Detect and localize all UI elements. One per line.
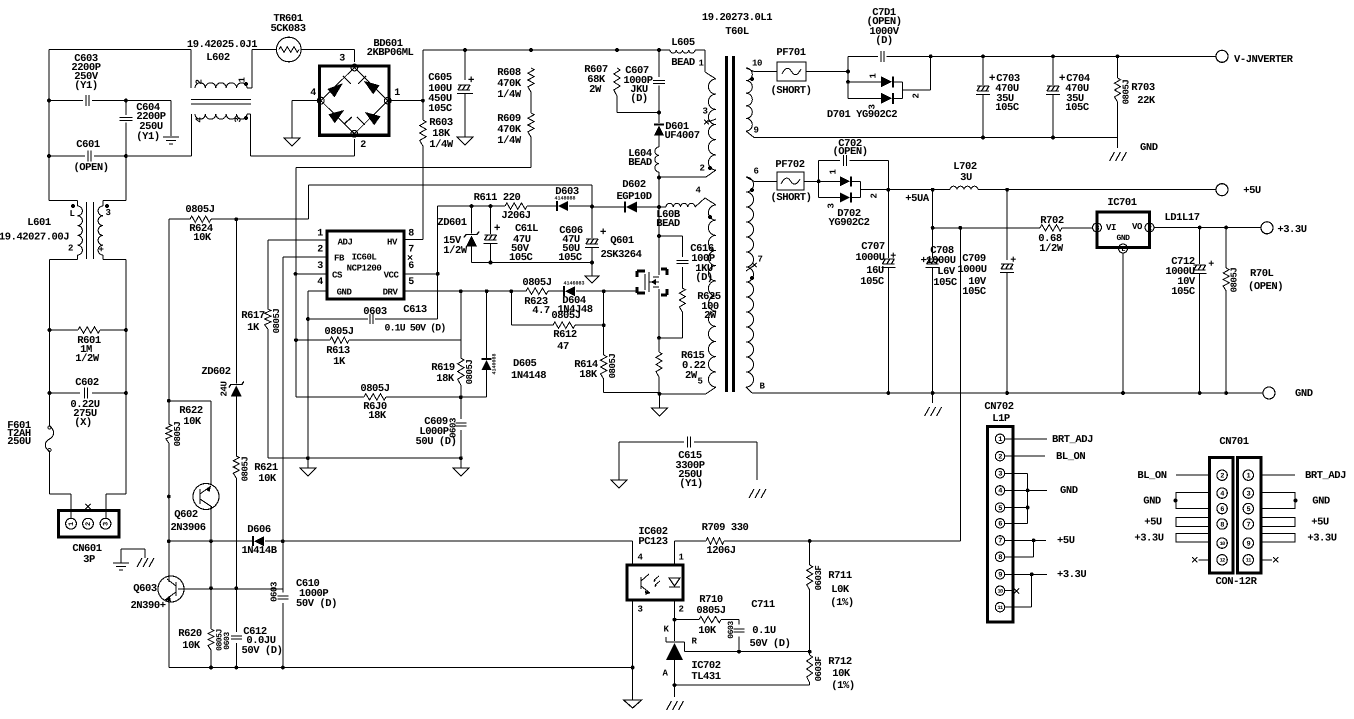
- svg-text:2: 2: [317, 245, 323, 256]
- svg-text:(SHORT): (SHORT): [771, 85, 812, 97]
- svg-text:1: 1: [394, 88, 400, 99]
- svg-text:2: 2: [679, 604, 684, 614]
- svg-text:105C: 105C: [962, 286, 987, 298]
- svg-text:10K: 10K: [832, 668, 851, 680]
- svg-text:D605: D605: [513, 358, 537, 370]
- svg-text:8: 8: [998, 554, 1002, 562]
- svg-text:FB: FB: [334, 253, 345, 263]
- svg-text:10: 10: [752, 58, 762, 68]
- svg-text:(Y1): (Y1): [679, 478, 702, 490]
- svg-text:3: 3: [1095, 225, 1099, 233]
- svg-text:4: 4: [310, 88, 316, 99]
- svg-text:+: +: [1010, 256, 1016, 267]
- svg-text:2: 2: [1148, 225, 1152, 233]
- svg-text:1: 1: [317, 229, 323, 240]
- svg-text:VI: VI: [1106, 223, 1116, 233]
- svg-text:(Y1): (Y1): [136, 131, 159, 143]
- svg-text:+: +: [494, 223, 501, 235]
- svg-text:0603: 0603: [727, 621, 736, 639]
- svg-text:R70L: R70L: [1250, 268, 1274, 280]
- svg-text:3: 3: [102, 522, 110, 526]
- svg-text:T60L: T60L: [725, 26, 749, 38]
- svg-text:BEAD: BEAD: [671, 57, 695, 69]
- svg-text:GND: GND: [1312, 495, 1330, 507]
- svg-text:0805J: 0805J: [240, 457, 250, 482]
- svg-text:Q603: Q603: [133, 583, 157, 595]
- svg-text:7: 7: [998, 538, 1002, 546]
- svg-text:ADJ: ADJ: [338, 237, 353, 247]
- svg-text:2KBP06ML: 2KBP06ML: [367, 47, 414, 59]
- svg-text:GND: GND: [1116, 234, 1130, 243]
- svg-text:R709 330: R709 330: [702, 522, 749, 534]
- svg-text:50V (D): 50V (D): [242, 645, 283, 657]
- svg-text:10: 10: [997, 589, 1003, 595]
- svg-text:8: 8: [408, 229, 414, 240]
- svg-text:6: 6: [754, 166, 759, 176]
- svg-text:1: 1: [1246, 473, 1250, 481]
- svg-text:4.7: 4.7: [532, 305, 550, 317]
- svg-text:L: L: [70, 209, 75, 219]
- svg-text:6: 6: [1220, 506, 1224, 514]
- svg-text:+: +: [890, 252, 896, 263]
- svg-text:L: L: [1121, 246, 1125, 254]
- svg-text:PF702: PF702: [775, 159, 804, 171]
- svg-text:L605: L605: [671, 37, 695, 49]
- svg-text:DRV: DRV: [383, 287, 399, 297]
- svg-text:C613: C613: [403, 304, 427, 316]
- svg-text:0805J: 0805J: [1229, 268, 1239, 293]
- svg-text:4146083: 4146083: [563, 280, 584, 286]
- svg-text:1N4148: 1N4148: [511, 370, 546, 382]
- svg-text:19.20273.0L1: 19.20273.0L1: [702, 12, 772, 24]
- svg-text:0603F: 0603F: [814, 657, 824, 682]
- svg-text:UF4007: UF4007: [664, 130, 699, 142]
- svg-text:8: 8: [1220, 521, 1224, 529]
- svg-text:0805J: 0805J: [696, 605, 725, 617]
- svg-text:+3.3U: +3.3U: [1057, 569, 1086, 581]
- svg-text:C602: C602: [75, 377, 99, 389]
- svg-text:BRT_ADJ: BRT_ADJ: [1052, 434, 1093, 446]
- svg-text:2W: 2W: [685, 370, 698, 382]
- svg-text:Q602: Q602: [174, 509, 198, 521]
- svg-text:2: 2: [911, 93, 921, 98]
- svg-text:0603F: 0603F: [814, 566, 824, 591]
- svg-text:3P: 3P: [83, 554, 95, 566]
- svg-text:12: 12: [1220, 558, 1226, 564]
- svg-text:L601: L601: [27, 217, 51, 229]
- svg-text:105C: 105C: [1065, 102, 1090, 114]
- svg-text:+5U: +5U: [1057, 535, 1075, 547]
- svg-text:R712: R712: [828, 656, 852, 668]
- svg-text:BEAD: BEAD: [628, 157, 652, 169]
- svg-text:50V (D): 50V (D): [296, 598, 337, 610]
- svg-text:D602: D602: [622, 179, 646, 191]
- svg-text:ZD601: ZD601: [437, 217, 466, 229]
- svg-text:+5U: +5U: [1311, 516, 1329, 528]
- svg-text:3: 3: [998, 471, 1002, 479]
- svg-text:(OPEN): (OPEN): [832, 146, 867, 158]
- svg-text:ZD602: ZD602: [201, 366, 230, 378]
- svg-text:3: 3: [106, 208, 111, 218]
- svg-text:BL_ON: BL_ON: [1137, 470, 1166, 482]
- svg-text:R612: R612: [553, 329, 577, 341]
- svg-text:L1P: L1P: [992, 413, 1010, 425]
- svg-text:5: 5: [698, 376, 703, 386]
- svg-text:+3.3U: +3.3U: [1134, 532, 1163, 544]
- svg-text:+3.3U: +3.3U: [1277, 224, 1306, 236]
- svg-text:18K: 18K: [368, 410, 387, 422]
- svg-text:CS: CS: [332, 270, 343, 280]
- svg-text:+: +: [99, 245, 104, 255]
- svg-text:24U: 24U: [219, 382, 229, 397]
- svg-text:0.1U: 0.1U: [752, 625, 776, 637]
- svg-text:2: 2: [360, 140, 366, 151]
- svg-text:105C: 105C: [558, 252, 583, 264]
- svg-text:CN702: CN702: [984, 401, 1013, 413]
- svg-text:5: 5: [998, 505, 1002, 513]
- svg-text:105C: 105C: [860, 276, 885, 288]
- svg-text:0805J: 0805J: [608, 354, 618, 379]
- svg-text:50U (D): 50U (D): [416, 436, 457, 448]
- svg-text:10K: 10K: [182, 640, 201, 652]
- svg-text:250U: 250U: [7, 436, 31, 448]
- svg-text:4148088: 4148088: [554, 195, 575, 201]
- svg-text:R711: R711: [828, 570, 852, 582]
- svg-text:1000U: 1000U: [855, 252, 884, 264]
- svg-text:(D): (D): [875, 35, 893, 47]
- svg-text:10: 10: [1220, 541, 1226, 547]
- svg-text:0805J: 0805J: [465, 360, 475, 385]
- svg-text:105C: 105C: [428, 103, 453, 115]
- svg-text:3: 3: [826, 203, 836, 208]
- svg-text:(X): (X): [74, 417, 92, 429]
- svg-text:1/4W: 1/4W: [429, 139, 454, 151]
- svg-text:19.42027.00J: 19.42027.00J: [0, 231, 69, 243]
- svg-text:3: 3: [1246, 490, 1250, 498]
- svg-text:2: 2: [700, 163, 705, 173]
- svg-text:7: 7: [758, 254, 763, 264]
- svg-text:5: 5: [408, 277, 414, 288]
- svg-text:10K: 10K: [258, 473, 277, 485]
- svg-text:3: 3: [233, 117, 243, 122]
- svg-text:3: 3: [638, 604, 643, 614]
- svg-text:GND: GND: [1295, 388, 1313, 400]
- svg-text:1/4W: 1/4W: [497, 89, 522, 101]
- svg-text:2: 2: [194, 79, 204, 84]
- svg-text:V-JNVERTER: V-JNVERTER: [1234, 54, 1294, 66]
- svg-text:7: 7: [1246, 521, 1250, 529]
- svg-text:6: 6: [408, 261, 414, 272]
- svg-text:10K: 10K: [183, 416, 202, 428]
- svg-text:TL431: TL431: [691, 671, 720, 683]
- svg-text:(OPEN): (OPEN): [1248, 281, 1283, 293]
- svg-text:GND: GND: [337, 287, 353, 297]
- svg-text:D701 YG902C2: D701 YG902C2: [827, 109, 897, 121]
- svg-text:Q601: Q601: [610, 235, 634, 247]
- svg-text:19.42025.0J1: 19.42025.0J1: [187, 39, 257, 51]
- svg-text:105C: 105C: [1171, 286, 1196, 298]
- svg-text:1K: 1K: [247, 322, 260, 334]
- svg-text:PC123: PC123: [638, 536, 667, 548]
- svg-text:YG902C2: YG902C2: [829, 217, 870, 229]
- svg-text:GND: GND: [1060, 485, 1078, 497]
- svg-text:1206J: 1206J: [706, 545, 735, 557]
- svg-text:L0K: L0K: [831, 584, 850, 596]
- svg-text:R611 220: R611 220: [474, 192, 521, 204]
- svg-text:5: 5: [1246, 506, 1250, 514]
- svg-text:GND: GND: [1143, 495, 1161, 507]
- svg-text:2W: 2W: [704, 310, 717, 322]
- svg-text:2: 2: [68, 243, 73, 253]
- svg-text:6: 6: [998, 521, 1002, 529]
- svg-text:LD1L17: LD1L17: [1164, 212, 1199, 224]
- svg-text:D606: D606: [247, 524, 271, 536]
- svg-text:(1%): (1%): [830, 597, 853, 609]
- svg-text:+5U: +5U: [1144, 516, 1162, 528]
- svg-text:R703: R703: [1131, 82, 1155, 94]
- svg-text:0805J: 0805J: [360, 383, 389, 395]
- svg-text:2: 2: [869, 193, 879, 198]
- svg-text:11: 11: [997, 605, 1003, 611]
- svg-text:1/2W: 1/2W: [443, 245, 468, 257]
- svg-text:0805J: 0805J: [185, 204, 214, 216]
- svg-text:IC60L: IC60L: [352, 252, 377, 262]
- svg-text:BRT_ADJ: BRT_ADJ: [1305, 470, 1346, 482]
- svg-text:R620: R620: [178, 628, 202, 640]
- svg-text:(Y1): (Y1): [74, 80, 97, 92]
- svg-text:2: 2: [998, 454, 1002, 462]
- svg-text:1/2W: 1/2W: [1039, 243, 1064, 255]
- svg-text:L602: L602: [206, 52, 230, 64]
- svg-text:R617: R617: [241, 310, 265, 322]
- svg-text:0603: 0603: [223, 632, 232, 650]
- svg-text:2: 2: [1220, 473, 1224, 481]
- svg-text:1/4W: 1/4W: [497, 135, 522, 147]
- svg-text:(D): (D): [695, 272, 713, 284]
- svg-text:CON-12R: CON-12R: [1216, 576, 1258, 588]
- svg-text:+: +: [1208, 260, 1214, 271]
- svg-text:(D): (D): [630, 93, 648, 105]
- svg-text:IC701: IC701: [1107, 197, 1136, 209]
- svg-text:10K: 10K: [698, 625, 717, 637]
- svg-text:2N3906: 2N3906: [170, 522, 205, 534]
- svg-text:9: 9: [754, 125, 759, 135]
- svg-text:PF701: PF701: [776, 47, 805, 59]
- svg-text:0.1U 50V (D): 0.1U 50V (D): [385, 323, 446, 334]
- svg-text:0603: 0603: [269, 582, 279, 602]
- svg-text:0805J: 0805J: [522, 277, 551, 289]
- svg-text:3U: 3U: [960, 172, 972, 184]
- svg-text:18K: 18K: [579, 369, 598, 381]
- svg-text:1K: 1K: [333, 356, 346, 368]
- svg-text:9: 9: [1246, 540, 1250, 548]
- svg-text:0603: 0603: [363, 306, 387, 318]
- svg-text:NCP1200: NCP1200: [347, 263, 382, 273]
- svg-text:VCC: VCC: [384, 270, 400, 280]
- svg-text:5CK083: 5CK083: [270, 23, 305, 35]
- svg-text:9: 9: [998, 572, 1002, 580]
- svg-text:+3.3U: +3.3U: [1307, 532, 1336, 544]
- svg-text:1/2W: 1/2W: [75, 353, 100, 365]
- svg-text:R702: R702: [1040, 215, 1064, 227]
- svg-text:1: 1: [998, 436, 1002, 444]
- svg-text:2N390+: 2N390+: [130, 600, 165, 612]
- svg-text:+5U: +5U: [1243, 185, 1261, 197]
- svg-text:0805J: 0805J: [324, 326, 353, 338]
- svg-text:50V (D): 50V (D): [750, 638, 791, 650]
- svg-text:2W: 2W: [589, 84, 602, 96]
- svg-text:BL_ON: BL_ON: [1056, 451, 1085, 463]
- svg-text:105C: 105C: [509, 252, 534, 264]
- svg-text:4140088: 4140088: [491, 353, 497, 374]
- svg-text:VO: VO: [1132, 222, 1143, 232]
- svg-text:4: 4: [998, 488, 1002, 496]
- svg-text:CN701: CN701: [1219, 436, 1248, 448]
- svg-text:2: 2: [85, 522, 93, 526]
- svg-text:105C: 105C: [995, 102, 1020, 114]
- svg-text:0805J: 0805J: [272, 309, 282, 334]
- svg-text:EGP10D: EGP10D: [616, 191, 651, 203]
- svg-text:2SK3264: 2SK3264: [601, 249, 642, 261]
- svg-text:0805J: 0805J: [551, 310, 580, 322]
- svg-text:7: 7: [408, 245, 414, 256]
- svg-text:3: 3: [703, 106, 708, 116]
- svg-text:3: 3: [317, 261, 323, 272]
- svg-text:18K: 18K: [436, 373, 455, 385]
- svg-text:C601: C601: [76, 139, 100, 151]
- svg-text:HV: HV: [387, 237, 398, 247]
- svg-text:11: 11: [1246, 558, 1252, 564]
- svg-text:1: 1: [68, 522, 76, 526]
- svg-text:BEAD: BEAD: [656, 218, 680, 230]
- svg-text:(1%): (1%): [831, 680, 854, 692]
- svg-text:105C: 105C: [933, 277, 958, 289]
- svg-text:J206J: J206J: [501, 210, 530, 222]
- svg-text:4: 4: [1220, 490, 1224, 498]
- svg-text:3: 3: [339, 54, 345, 65]
- svg-text:4: 4: [317, 277, 323, 288]
- svg-text:1000U: 1000U: [957, 264, 986, 276]
- svg-text:C711: C711: [751, 599, 775, 611]
- svg-text:47: 47: [557, 341, 569, 353]
- svg-text:+: +: [468, 75, 475, 87]
- svg-text:0805J: 0805J: [1121, 80, 1131, 105]
- svg-text:1N414B: 1N414B: [241, 545, 277, 557]
- svg-text:0805J: 0805J: [173, 422, 183, 447]
- svg-text:+5UA: +5UA: [905, 193, 930, 205]
- svg-text:(OPEN): (OPEN): [73, 162, 108, 174]
- svg-text:(SHORT): (SHORT): [771, 192, 812, 204]
- svg-text:+: +: [600, 227, 607, 239]
- svg-text:22K: 22K: [1137, 95, 1156, 107]
- svg-text:GND: GND: [1140, 142, 1158, 154]
- svg-text:10K: 10K: [193, 232, 212, 244]
